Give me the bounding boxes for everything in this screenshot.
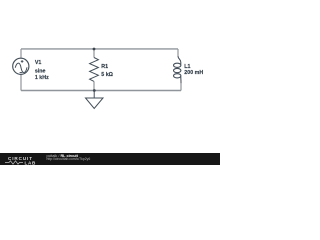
inductor L1 stub bottom [180, 83, 182, 91]
inductor L1 coil loop 1 [174, 63, 181, 67]
footer text line 2: url [47, 157, 91, 161]
svg-text:L1: L1 [184, 64, 190, 70]
wire bottom [21, 90, 181, 92]
voltage source V1 body [13, 58, 29, 74]
footer logo LAB with resistor glyph [5, 160, 43, 165]
voltage source V1 sine mark [15, 63, 27, 72]
junction node bottom [93, 89, 96, 92]
wire top [21, 48, 178, 50]
resistor R1 lead top [93, 49, 95, 58]
footer logo CIRCUIT [8, 156, 33, 161]
svg-text:R1: R1 [101, 64, 108, 70]
wire left rail lower [20, 74, 22, 90]
svg-text:1 kHz: 1 kHz [35, 75, 49, 81]
inductor L1 coil entry hook [178, 56, 181, 64]
inductor L1 coil loop 3 [174, 74, 181, 78]
junction node top [93, 48, 96, 51]
svg-text:LAB: LAB [25, 160, 37, 165]
resistor R1 lead bottom [93, 81, 95, 90]
ground stem [93, 91, 95, 99]
voltage source V1 minus mark [20, 72, 23, 74]
svg-text:5 kΩ: 5 kΩ [101, 72, 113, 78]
resistor R1 zigzag [90, 58, 99, 82]
footer bar [0, 153, 220, 165]
footer text line 1: pcitalk / RL circuit [47, 154, 78, 158]
wire left rail upper [20, 49, 22, 59]
svg-text:sine: sine [35, 68, 46, 74]
inductor L1 stub top [177, 49, 179, 57]
svg-text:200 mH: 200 mH [184, 70, 203, 76]
inductor L1 coil exit hook [180, 77, 182, 85]
svg-text:V1: V1 [35, 60, 42, 66]
voltage source V1 plus mark [21, 60, 24, 63]
ground triangle [86, 98, 104, 109]
inductor L1 coil loop 2 [174, 68, 181, 72]
